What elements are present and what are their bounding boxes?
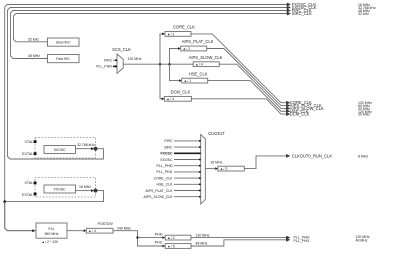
svg-text:16 MHz: 16 MHz: [79, 185, 91, 189]
svg-text:240 MHz: 240 MHz: [117, 227, 131, 231]
wire SXOSC_CLK net: left vertical + top run: [8, 8, 288, 160]
wire branch to AIPS_PLAT divider: [170, 49, 179, 65]
wire PLL to POSTDIV: [67, 229, 86, 232]
svg-text:48 MHz: 48 MHz: [356, 239, 368, 243]
divider AIPS_SLOW_CLK /4: [189, 55, 223, 67]
svg-text:8 MHz: 8 MHz: [358, 154, 368, 158]
pin EXTAL (FXOSC): [22, 193, 36, 198]
svg-text:CORE_CLK: CORE_CLK: [173, 25, 195, 30]
output arrow AIPS_PLAT_CLK: [286, 104, 289, 107]
svg-text:/ 5: / 5: [171, 244, 175, 248]
pin XTAL (SXOSC): [25, 140, 37, 144]
output arrow FXOSC_CLK: [287, 3, 290, 6]
svg-text:PLL_PHI1: PLL_PHI1: [294, 239, 310, 243]
wire FXOSC to PLL input: [5, 202, 36, 233]
svg-text:32.768 kHz: 32.768 kHz: [77, 143, 95, 147]
output arrow SIRC_CLK: [287, 12, 290, 15]
svg-text:960 MHz: 960 MHz: [44, 232, 58, 236]
pin PLL_PHI0 input of CLKOUT mux: [157, 164, 201, 168]
svg-text:SIRC_CLK: SIRC_CLK: [292, 11, 312, 16]
svg-text:EXTAL: EXTAL: [22, 152, 33, 156]
svg-text:XTAL: XTAL: [25, 181, 34, 185]
oscillator Slow IRC: [48, 38, 80, 46]
arrow into PHI1 divider: [163, 245, 166, 248]
svg-text:SXOSC: SXOSC: [54, 148, 67, 152]
pin SXOSC input of CLKOUT mux: [160, 158, 200, 162]
divider PHI1 /5: [165, 244, 191, 249]
oscillator group SXOSC dashed boundary: [35, 138, 96, 159]
wire FXOSC output with arrow into node: [76, 189, 95, 192]
wire FIRC_CLK net: from Fast IRC left, up, top run: [11, 11, 288, 59]
pll PLL block: [36, 223, 67, 238]
output arrow HSE_CLK: [286, 110, 289, 113]
pin FXOSC input of CLKOUT mux (selected, bold): [160, 152, 200, 156]
output arrow PLL_PHI1: [286, 238, 289, 241]
wire FXOSC loop below dashed box: [5, 191, 104, 202]
svg-text:XTAL: XTAL: [25, 140, 34, 144]
svg-text:AIPS_PLAT_CLK: AIPS_PLAT_CLK: [145, 189, 173, 193]
wire CLKOUT_RUN_CLK to output: [244, 156, 286, 169]
svg-text:/ 1: / 1: [187, 79, 191, 83]
svg-text:FXOSC: FXOSC: [54, 188, 67, 192]
svg-text:48 MHz: 48 MHz: [196, 242, 208, 246]
wire POSTDIV to PHI dividers: [113, 231, 163, 246]
oscillator group FXOSC dashed boundary: [35, 178, 96, 198]
svg-text:PLL: PLL: [48, 227, 54, 231]
svg-text:FIRC: FIRC: [164, 139, 173, 143]
arrow into PHI0 divider: [163, 236, 166, 239]
pin PLL_PHI0 input of SCS mux (selected, bold): [96, 65, 117, 69]
divider HSE_CLK /1: [179, 71, 208, 83]
pin SIRC input of CLKOUT mux: [164, 145, 201, 149]
svg-text:AIPS_SLOW_CLK: AIPS_SLOW_CLK: [189, 55, 223, 60]
svg-text:PLL_PHI0: PLL_PHI0: [96, 65, 112, 69]
output arrow SXOSC_CLK: [287, 6, 290, 9]
output arrow CLKOUT_RUN_CLK: [286, 154, 289, 157]
wire branch to HSE divider: [170, 64, 180, 80]
svg-text:DCM_CLK: DCM_CLK: [290, 112, 310, 117]
svg-text:SCS_CLK: SCS_CLK: [112, 47, 131, 52]
pin PLL_PHI1 input of CLKOUT mux: [157, 170, 201, 174]
divider CLKOUT /2: [218, 166, 244, 171]
pin HSE_CLK input of CLKOUT mux: [157, 183, 201, 187]
junction FXOSC at left edge: [3, 200, 6, 203]
svg-text:/ 4: / 4: [170, 97, 174, 101]
oscillator FXOSC: [44, 185, 76, 193]
svg-text:AIPS_PLAT_CLK: AIPS_PLAT_CLK: [182, 39, 214, 44]
pin XTAL (FXOSC): [25, 181, 37, 185]
svg-text:CLKOUT: CLKOUT: [208, 131, 225, 136]
svg-text:16 MHz: 16 MHz: [210, 161, 222, 165]
wire CORE_CLK output diagonal: [191, 34, 286, 103]
wire SIRC_CLK net: from Slow IRC left, up, top run: [14, 14, 288, 42]
output arrow CORE_CLK: [286, 101, 289, 104]
junction POSTDIV branch: [136, 236, 138, 238]
wire DCM_CLK output diagonal: [191, 99, 286, 114]
mux U_SCS (SCS_CLK selector): [112, 47, 131, 73]
wire PLL_PHI0 to output: [191, 237, 286, 239]
svg-text:POSTDIV: POSTDIV: [98, 222, 114, 226]
svg-text:CLKOUT0_RUN_CLK: CLKOUT0_RUN_CLK: [292, 153, 333, 158]
value /2*120 PLL setting: [42, 240, 58, 244]
svg-text:/ 4: / 4: [199, 63, 203, 67]
output arrow DCM_CLK: [286, 113, 289, 116]
divider POSTDIV /4: [86, 222, 113, 233]
wire PLL_PHI1 to output: [191, 240, 286, 246]
svg-text:HSE_CLK: HSE_CLK: [157, 183, 174, 187]
svg-text:PLL_PHI1: PLL_PHI1: [157, 170, 173, 174]
svg-text:PLL_PHI0: PLL_PHI0: [157, 164, 173, 168]
wire branch to DCM_CLK divider: [160, 64, 162, 99]
wire AIPS_PLAT_CLK output diagonal: [207, 49, 287, 106]
svg-text:120 MHz: 120 MHz: [196, 233, 210, 237]
oscillator SXOSC: [44, 146, 76, 154]
svg-text:120 MHz: 120 MHz: [128, 57, 142, 61]
wire branch to CORE_CLK divider: [160, 34, 163, 64]
node FXOSC output port: [94, 189, 98, 193]
svg-text:PHI0: PHI0: [155, 232, 163, 236]
divider CORE_CLK /1: [162, 25, 195, 37]
wire FXOSC_CLK net: left edge vertical + top run to output: [5, 5, 287, 231]
svg-text:/ 4: / 4: [92, 229, 96, 233]
node SXOSC output port: [94, 147, 98, 151]
svg-text:EXTAL: EXTAL: [22, 193, 33, 197]
svg-text:Fast IRC: Fast IRC: [56, 57, 70, 61]
wire CLKOUT mux output: [205, 167, 218, 170]
svg-text:Slow IRC: Slow IRC: [56, 41, 71, 45]
svg-text:PHI1: PHI1: [155, 241, 163, 245]
pin CORE_CLK input of CLKOUT mux: [154, 176, 201, 180]
oscillator Fast IRC: [48, 55, 80, 63]
wire AIPS_SLOW_CLK output diagonal: [219, 64, 286, 108]
svg-text:FXOSC: FXOSC: [160, 152, 173, 156]
output arrow FIRC_CLK: [287, 9, 290, 12]
svg-text:/ 2: / 2: [224, 167, 228, 171]
svg-text:32 kHz: 32 kHz: [28, 37, 39, 41]
svg-text:HSE_CLK: HSE_CLK: [189, 71, 208, 76]
svg-text:DCM_CLK: DCM_CLK: [171, 90, 191, 95]
svg-text:SXOSC: SXOSC: [160, 158, 173, 162]
svg-text:FIRC: FIRC: [104, 59, 113, 63]
wire HSE_CLK output diagonal: [208, 81, 287, 112]
pin AIPS_PLAT_CLK input of CLKOUT mux: [145, 189, 200, 193]
divider PHI0 /2: [165, 235, 191, 240]
svg-text:/ 2: / 2: [186, 47, 190, 51]
pin AIPS_SLOW_CLK input of CLKOUT mux: [144, 195, 201, 199]
svg-text:AIPS_SLOW_CLK: AIPS_SLOW_CLK: [144, 195, 174, 199]
svg-text:30 MHz: 30 MHz: [358, 113, 370, 117]
divider DCM_CLK /4: [162, 90, 192, 102]
output arrow PLL_PHI0: [286, 236, 289, 239]
wire branch to PHI0: [138, 237, 163, 239]
svg-text:SIRC: SIRC: [164, 145, 173, 149]
output arrow AIPS_SLOW_CLK: [286, 107, 289, 110]
svg-text:32 kHz: 32 kHz: [358, 12, 369, 16]
svg-text:/ 2: / 2: [171, 236, 175, 240]
svg-text:/ 1: / 1: [171, 32, 175, 36]
svg-text:48 MHz: 48 MHz: [28, 54, 40, 58]
divider AIPS_PLAT_CLK /2: [178, 39, 214, 51]
pin FIRC input of CLKOUT mux: [164, 139, 200, 143]
mux U_CLKOUT selector: [201, 131, 226, 204]
wire SXOSC output with arrow into node: [76, 147, 95, 150]
junction SCS line / CORE+DCM branch: [159, 63, 161, 65]
svg-text:CORE_CLK: CORE_CLK: [154, 176, 174, 180]
pin FIRC input of SCS mux: [104, 59, 117, 63]
svg-text:/ 2 * 120: / 2 * 120: [45, 240, 58, 244]
pin EXTAL (SXOSC): [22, 152, 36, 156]
junction SCS line / PLAT+HSE branch: [168, 63, 170, 65]
wire SCS_CLK main output run: [123, 63, 193, 65]
